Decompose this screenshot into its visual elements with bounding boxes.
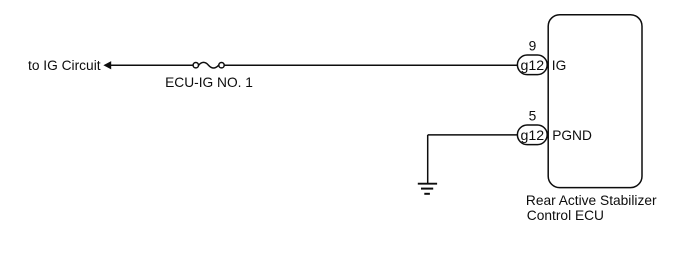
wire: pin 5 to ground (vertical) [427,135,429,184]
svg-text:g12: g12 [520,58,544,74]
svg-text:to IG Circuit: to IG Circuit [28,58,101,73]
arrow (to IG Circuit) [103,61,111,69]
svg-text:Control ECU: Control ECU [527,208,604,223]
fuse ECU-IG NO. 1 [193,62,224,68]
svg-text:IG: IG [552,58,567,73]
svg-text:PGND: PGND [552,128,592,143]
wire: fuse to pin 9 [224,64,518,66]
ground symbol [418,184,437,194]
wire: pin 5 to ground (horizontal) [428,134,518,136]
svg-text:ECU-IG NO. 1: ECU-IG NO. 1 [165,75,253,90]
svg-text:g12: g12 [520,128,544,144]
svg-text:Rear Active Stabilizer: Rear Active Stabilizer [526,193,657,208]
connector pin 9 oval g12 [517,55,547,75]
ECU box U1 [548,15,642,188]
connector pin 5 oval g12 [517,125,547,145]
svg-text:9: 9 [529,38,537,53]
wire: arrow to fuse [110,64,194,66]
svg-text:5: 5 [529,108,537,123]
